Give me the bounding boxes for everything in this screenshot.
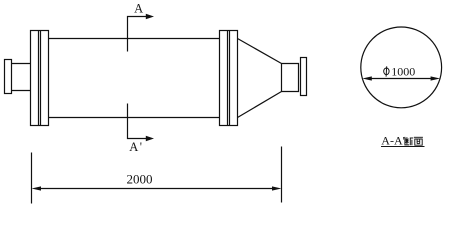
left nozzle flange	[5, 60, 12, 94]
diameter dimension line	[370, 78, 433, 80]
arrowhead section A' bottom	[146, 136, 154, 142]
vessel shell top wall	[49, 38, 220, 40]
arrowhead section A top	[146, 14, 154, 20]
right body flange	[220, 31, 238, 126]
arrowhead dim 2000 left	[32, 186, 42, 190]
section circle A-A	[361, 27, 442, 108]
reducer cone	[238, 39, 282, 118]
right nozzle flange	[301, 58, 307, 96]
left nozzle pipe	[12, 64, 31, 91]
svg-text:': '	[140, 140, 142, 154]
vessel shell bottom wall	[49, 117, 220, 119]
svg-text:A: A	[129, 140, 138, 154]
caption underline	[381, 146, 425, 148]
arrowhead dim 2000 right	[272, 186, 282, 190]
arrowhead diameter right	[431, 76, 441, 80]
arrowhead diameter left	[362, 76, 372, 80]
right nozzle pipe	[282, 64, 299, 92]
section line A (top)	[128, 17, 147, 52]
kanji DAN (cut)	[405, 137, 413, 145]
dimension extension line right	[281, 147, 283, 203]
phi symbol of diameter label	[384, 66, 389, 76]
svg-text:2000: 2000	[127, 171, 153, 186]
section line A' (bottom)	[128, 104, 147, 139]
kanji MEN (face)	[414, 137, 423, 145]
svg-text:1000: 1000	[391, 64, 415, 78]
left body flange	[31, 31, 49, 126]
svg-text:A-A': A-A'	[381, 134, 405, 148]
dimension line 2000	[40, 188, 273, 190]
svg-text:A: A	[134, 2, 143, 16]
dimension extension line left	[31, 153, 33, 204]
